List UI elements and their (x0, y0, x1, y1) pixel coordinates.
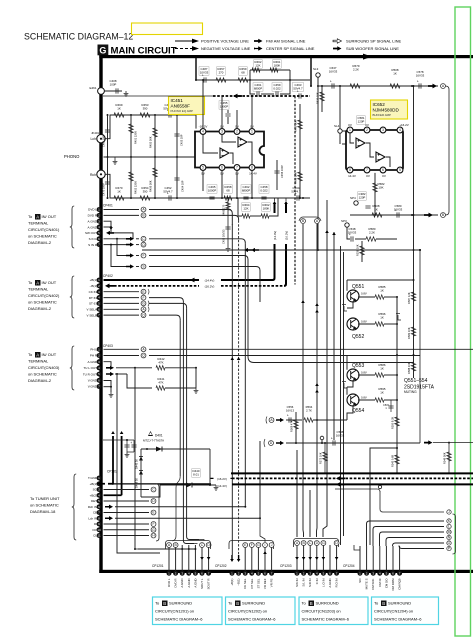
svg-text:+B(2): +B(2) (90, 493, 97, 497)
vertical bus left of muting 343 (343, 252, 345, 536)
svg-text:B: B (236, 601, 239, 606)
vertical bus from node F (247, 261, 249, 356)
svg-text:68: 68 (241, 70, 245, 74)
svg-text:TERMINAL: TERMINAL (28, 287, 49, 292)
svg-text:R545 0.68: R545 0.68 (391, 454, 395, 467)
ground R466 chain (226, 246, 231, 251)
svg-text:A: A (36, 281, 39, 286)
svg-text:R546 56K: R546 56K (443, 452, 447, 464)
CP1204 stub wires (359, 546, 361, 571)
wire CP1204 fan O (393, 543, 445, 546)
IC652 internal wires (350, 133, 354, 143)
diode D401 label (148, 431, 153, 436)
wire Q551 collector row (358, 296, 375, 298)
node B CP401 (141, 213, 146, 218)
svg-text:F: F (251, 543, 253, 547)
svg-text:6800P: 6800P (242, 188, 250, 192)
capacitor C382 (358, 192, 366, 200)
D401 frame bottom rail (141, 485, 186, 497)
CP1202 pin 3 CK SEL (243, 571, 248, 576)
wire buffer out row to B (350, 214, 438, 216)
wire muting to left drop (370, 448, 397, 545)
IC652 pin bottom 8 (347, 167, 353, 173)
CP1201 pin 7 SOUT R (206, 571, 211, 576)
node D CP1203 (314, 541, 319, 546)
svg-text:CP1201: CP1201 (152, 564, 164, 568)
svg-text:C469 180P: C469 180P (102, 134, 106, 147)
border drop wire at 311 (310, 58, 312, 86)
svg-text:CP402: CP402 (103, 274, 113, 278)
junction dots center buses (231, 472, 233, 474)
border drop wire at 196 (195, 58, 197, 80)
wire branch to S (111, 245, 126, 267)
wire Q551 rails (346, 280, 348, 291)
svg-text:3: 3 (382, 128, 384, 132)
svg-text:16V13: 16V13 (286, 408, 295, 412)
IC652 pin bottom 5 (397, 167, 403, 173)
IC451 pin 7 (234, 165, 240, 171)
vertical bus C down (149, 239, 245, 244)
CP1204 pin1 hook (354, 545, 360, 550)
pin circle C3 lower (378, 485, 381, 488)
IC451 pin 3 (219, 129, 225, 135)
svg-text:SCHEMATIC DIAGRAM–6: SCHEMATIC DIAGRAM–6 (374, 617, 422, 622)
long signal wire row 250 (142, 249, 420, 251)
svg-text:100P: 100P (110, 82, 117, 86)
svg-text:A.GND: A.GND (328, 579, 332, 588)
svg-text:CM RQ9: CM RQ9 (398, 578, 402, 590)
svg-text:T.GND: T.GND (88, 476, 98, 480)
svg-text:TU L OUT: TU L OUT (83, 366, 97, 370)
wire Lch jack riser (105, 115, 196, 139)
wire SP3 row (347, 227, 350, 239)
ac inlet E461 (98, 88, 105, 95)
diode D401 (156, 447, 162, 452)
capacitor C455 (219, 101, 229, 109)
svg-text:R588 10K: R588 10K (407, 362, 411, 374)
brace CP401 (70, 206, 74, 248)
node G CP101 (151, 527, 156, 532)
svg-text:R483 56K: R483 56K (294, 120, 298, 132)
svg-text:CP403: CP403 (103, 344, 113, 348)
node J CP1202 (269, 543, 274, 548)
CP1201 ground bar (138, 548, 195, 550)
wire CP402 pin5 to node G (104, 302, 140, 304)
svg-text:2.2K: 2.2K (353, 67, 359, 71)
svg-text:CP1204: CP1204 (343, 564, 355, 568)
op-amp A IC652 (356, 138, 365, 148)
svg-text:B: B (163, 601, 166, 606)
svg-text:+: + (202, 74, 204, 78)
node A right (441, 84, 446, 89)
node I CP1202 (263, 543, 268, 548)
connector SP3 (345, 223, 349, 227)
svg-text:+: + (417, 80, 419, 84)
svg-text:J: J (448, 510, 450, 514)
svg-text:R587 12K: R587 12K (407, 292, 411, 304)
svg-text:390: 390 (143, 106, 148, 110)
svg-text:–B(1): –B(1) (237, 578, 241, 585)
IC451 pin 5 (200, 165, 206, 171)
connector SL4 (338, 129, 342, 133)
resistor R582 below IC652 (374, 173, 376, 215)
right side vertical resistor R488 (299, 160, 301, 198)
resistor R587 vertical (413, 280, 415, 355)
wire CP402 pin6 to node A (104, 308, 140, 310)
svg-text:+: + (395, 209, 397, 213)
svg-text:2: 2 (236, 130, 238, 134)
wire CP401 pin7 S IN R (104, 244, 127, 246)
node D CP1201 (206, 543, 211, 548)
svg-text:R573 10K: R573 10K (319, 452, 323, 464)
wire CP101 CE to E (104, 512, 150, 514)
capacitor C515 (390, 400, 392, 412)
brace CP403 (70, 346, 74, 390)
svg-text:1: 1 (349, 128, 351, 132)
node F CP1202 (249, 543, 254, 548)
wire CP101 Lch IN (105, 516, 113, 520)
svg-text:CIRCUIT(CN403): CIRCUIT(CN403) (28, 365, 60, 370)
CP1201 pin 3 A.GND (180, 571, 185, 576)
IC451 internal wires (222, 134, 236, 142)
cyan box CN1204 (372, 597, 439, 625)
svg-text:SURROUND SP SIGNAL LINE: SURROUND SP SIGNAL LINE (346, 39, 401, 44)
positive rail from CP402 pin1 (104, 279, 200, 281)
shunt resistor R455 (154, 114, 156, 116)
svg-text:Q552: Q552 (352, 334, 364, 340)
op-amp IC652 package (346, 130, 403, 170)
bias stub Q551 (344, 306, 347, 311)
svg-text:SCHEMATIC DIAGRAM–6: SCHEMATIC DIAGRAM–6 (155, 617, 203, 622)
svg-text:+: + (167, 192, 169, 196)
svg-text:S/R IN: S/R IN (308, 579, 312, 588)
CP1202 housing bracket (229, 541, 274, 550)
svg-text:(16.2V): (16.2V) (205, 284, 215, 288)
node N CP1204 (447, 535, 451, 539)
vertical bus left of muting 340 (340, 246, 342, 545)
svg-text:SL3: SL3 (313, 67, 319, 71)
svg-text:CIRCUIT(CN1203) on: CIRCUIT(CN1203) on (302, 609, 341, 614)
svg-text:ST 63: ST 63 (89, 302, 97, 306)
wire CP101 DI to F (104, 523, 150, 525)
svg-text:–B(1): –B(1) (90, 284, 97, 288)
svg-text:VR REF: VR REF (263, 578, 267, 589)
wire node S run 266 (149, 267, 260, 272)
svg-text:A: A (36, 353, 39, 358)
wire CP403 pin5 TU R OUT (106, 372, 114, 376)
svg-text:4: 4 (399, 128, 401, 132)
svg-text:IC451: IC451 (171, 98, 184, 103)
resistor R461 (273, 60, 281, 68)
wire Q553 Q554 left rails (346, 355, 348, 370)
node D2 CP1203 (334, 541, 339, 546)
svg-text:CIRCUIT(CN1202) on: CIRCUIT(CN1202) on (228, 609, 267, 614)
svg-text:R451 220K: R451 220K (134, 131, 138, 144)
node H CP101 (151, 533, 156, 538)
svg-text:F: F (142, 254, 144, 258)
capacitor C581 (357, 116, 365, 124)
svg-text:CM DO: CM DO (384, 578, 388, 588)
resistor R458 (224, 185, 232, 193)
svg-text:DIAGRAM–2: DIAGRAM–2 (28, 240, 52, 245)
svg-text:1: 1 (251, 130, 253, 134)
svg-text:C470 180P: C470 180P (102, 183, 106, 196)
node B right (441, 213, 446, 218)
negative supply dashed bus upper (103, 95, 213, 97)
svg-text:5: 5 (202, 166, 204, 170)
node A CP402 (141, 307, 146, 312)
node C CP1201 (200, 543, 205, 548)
svg-text:120P: 120P (359, 195, 366, 199)
wire IC451 pin risers (202, 80, 204, 129)
CP1204 pin 7 CM RQ9 (397, 571, 402, 576)
node E CP1202 (243, 543, 248, 548)
IC652 pin bottom 6 (380, 167, 386, 173)
svg-text:5: 5 (399, 168, 401, 172)
brace CP402 (70, 276, 74, 318)
svg-text:Q551: Q551 (352, 284, 364, 290)
svg-text:1K: 1K (117, 106, 121, 110)
capacitor C461 (253, 83, 263, 91)
diode D440 (186, 483, 192, 488)
thick wire CP101 +B1 up (97, 482, 106, 486)
vertical link A B rows (413, 86, 415, 282)
svg-text:1K: 1K (393, 71, 397, 75)
resistor R568 vertical (295, 412, 297, 443)
svg-text:ST SEL: ST SEL (256, 578, 260, 588)
svg-text:6: 6 (221, 166, 223, 170)
CP1202 pin 1 +B(1) (230, 571, 235, 576)
shunt resistor R452 (130, 197, 132, 199)
supply rail drop at 420 (419, 250, 421, 442)
svg-text:To TUNER UNIT: To TUNER UNIT (30, 496, 60, 501)
wire CP401 pin1 to node A (104, 209, 140, 211)
svg-text:VR PS: VR PS (270, 578, 274, 587)
svg-text:DVD R: DVD R (88, 214, 98, 218)
node A row 420 bracket (266, 417, 267, 424)
svg-text:0.8V: 0.8V (361, 371, 367, 375)
svg-text:Q: Q (142, 354, 145, 358)
svg-text:SUB WOOFER SIGNAL LINE: SUB WOOFER SIGNAL LINE (346, 46, 399, 51)
svg-text:Q: Q (142, 313, 145, 317)
svg-text:47K: 47K (158, 360, 163, 364)
node G CP402 (141, 301, 146, 306)
node S CP401 (141, 264, 146, 269)
capacitor C445 (133, 440, 135, 452)
node G CP1202 (256, 543, 261, 548)
svg-text:F: F (142, 296, 144, 300)
jack Rch (97, 170, 105, 178)
resistor R462 (254, 60, 262, 68)
svg-text:Q553: Q553 (352, 363, 364, 369)
svg-text:180K: 180K (263, 206, 270, 210)
negative bus arrowhead (233, 94, 242, 99)
wire D row 443 (264, 439, 265, 447)
svg-text:(14.4V): (14.4V) (217, 484, 227, 488)
node D center (269, 441, 274, 446)
svg-text:CENTER SP SIGNAL LINE: CENTER SP SIGNAL LINE (266, 46, 315, 51)
op-amp B IC451 (220, 148, 229, 158)
CP1202 stub wires (244, 545, 246, 571)
node arrow to B (411, 214, 413, 216)
resistor R545 vertical (395, 455, 399, 464)
CP1203 stub wires (296, 545, 298, 571)
feedback network wire above IC451 (196, 79, 310, 81)
node C CP101 (151, 487, 156, 492)
CP402 node F bus down (149, 298, 183, 303)
bottom-left vertical from TU L (134, 368, 136, 549)
node A CP1203 (295, 541, 300, 546)
svg-text:2: 2 (366, 128, 368, 132)
right side vertical resistor R483 (299, 104, 301, 160)
svg-text:SURROUND: SURROUND (169, 601, 192, 606)
svg-text:B: B (382, 601, 385, 606)
wire cap row 440 (103, 439, 134, 441)
CP1202 pin 6 VR REF (263, 571, 268, 576)
svg-text:CK SEL: CK SEL (243, 578, 247, 589)
svg-text:6800P: 6800P (254, 86, 262, 90)
phono ground bus (104, 156, 256, 158)
svg-text:0V: 0V (365, 123, 369, 127)
CP1203 pin 2 S/L IN (301, 571, 306, 576)
IC451 highlight label (169, 97, 205, 115)
shunt capacitor C453 (176, 114, 178, 116)
wire CP101 CL to H (104, 535, 150, 537)
wire CP403 V.GND pins (104, 386, 112, 388)
wire CP402 pin3 to node E (104, 291, 140, 293)
wire CP402 pin7 to node Q (104, 314, 140, 316)
svg-text:V SELA: V SELA (86, 307, 97, 311)
wire CP1204 fan P (399, 546, 444, 549)
legend FM AM signal arrow (254, 39, 263, 43)
svg-text:8: 8 (251, 166, 253, 170)
cyan box CN1201 (153, 597, 223, 625)
svg-text:on SCHEMATIC: on SCHEMATIC (28, 300, 57, 305)
node C CP1203 (308, 541, 313, 546)
svg-text:3: 3 (221, 130, 223, 134)
svg-text:DET: DET (91, 499, 97, 503)
capacitor C459 (272, 83, 282, 91)
svg-text:MTZJ-T-7TA5TA: MTZJ-T-7TA5TA (143, 439, 164, 443)
svg-text:PHONO: PHONO (64, 154, 80, 159)
svg-text:SP3: SP3 (341, 219, 347, 223)
ground R441 (194, 388, 199, 393)
svg-text:G: G (142, 302, 145, 306)
wire SL4 drop from row (339, 86, 341, 129)
negative rail from CP402 pin2 (105, 284, 114, 289)
svg-text:1K: 1K (380, 390, 384, 394)
capacitor C457 vertical (227, 218, 229, 246)
resistor R588 vertical (413, 355, 415, 378)
svg-text:0.022: 0.022 (273, 86, 281, 90)
svg-text:14.4V: 14.4V (249, 172, 257, 176)
svg-text:SURROUND: SURROUND (242, 601, 265, 606)
capacitor C487 (199, 67, 209, 75)
svg-text:NJM4580DD: NJM4580DD (373, 108, 400, 113)
node D CP101 (151, 499, 156, 504)
node M CP1204 (447, 530, 451, 534)
muting block top rail (347, 279, 414, 281)
svg-text:16V33: 16V33 (336, 433, 345, 437)
CP1203 housing bracket (294, 539, 339, 548)
svg-text:270: 270 (219, 70, 224, 74)
negative bus vertical dashed drop (294, 96, 296, 285)
svg-text:PH L: PH L (90, 348, 97, 352)
svg-text:DVD L: DVD L (167, 578, 171, 587)
svg-text:0.022: 0.022 (260, 188, 268, 192)
IC451 pin 8 (249, 165, 255, 171)
svg-text:SOUT R: SOUT R (207, 579, 211, 590)
brace CP101 (72, 474, 76, 540)
svg-text:0.8V: 0.8V (361, 396, 367, 400)
capacitor C458 (259, 185, 269, 193)
node Q CP401 (141, 242, 146, 247)
svg-text:on SCHEMATIC: on SCHEMATIC (28, 234, 57, 239)
wire CP101 Rch IN (105, 505, 113, 509)
svg-text:SP4: SP4 (350, 196, 356, 200)
svg-text:V.GND: V.GND (88, 385, 98, 389)
bias stub Q554 (344, 383, 347, 388)
center vertical 303 (302, 224, 305, 537)
svg-text:11: 11 (97, 534, 100, 538)
center vertical 317 (316, 224, 319, 537)
wire CP403 pin1 to node A (104, 348, 140, 350)
wire to CP1201 ground bar (135, 548, 138, 550)
svg-text:180K: 180K (274, 63, 281, 67)
IC652 pin top 2 (364, 127, 370, 133)
capacitor C444 (126, 440, 128, 452)
svg-text:FM/ AM SIGNAL LINE: FM/ AM SIGNAL LINE (266, 39, 306, 44)
node A CP403 (141, 347, 146, 352)
svg-text:0.8V: 0.8V (361, 292, 367, 296)
resistor R583 vertical (411, 327, 415, 336)
IC652 highlight label (371, 100, 408, 119)
CP1201 stub wires (168, 545, 170, 571)
svg-text:Rch: Rch (90, 173, 96, 177)
center vertical 310 lower (309, 490, 311, 537)
vertical bus A down (149, 210, 232, 215)
cyan box CN1203 (299, 597, 368, 625)
capacitor C465 (207, 185, 217, 193)
node B CP1201 (173, 543, 178, 548)
svg-text:S IN L: S IN L (89, 237, 98, 241)
CP1202 supply arrows (230, 559, 234, 562)
vertical bus B down dashed (149, 215, 239, 220)
CP1204 pin 1 SO (358, 571, 363, 576)
svg-text:1K: 1K (380, 315, 384, 319)
node K CP1204 (447, 519, 451, 523)
thick wire CP101 +B2 up (104, 494, 122, 496)
horizontal PH R line 355.5 (149, 355, 420, 357)
svg-text:G: G (322, 541, 325, 545)
ground at C408 (124, 91, 129, 96)
svg-text:12K: 12K (243, 206, 248, 210)
bus corner from rail 420 (433, 442, 473, 444)
svg-text:S/L IN: S/L IN (302, 579, 306, 587)
node A CP401 (141, 207, 146, 212)
svg-text:16V33: 16V33 (329, 69, 338, 73)
svg-text:8.01: 8.01 (193, 472, 199, 476)
svg-text:SCHEMATIC DIAGRAM–6: SCHEMATIC DIAGRAM–6 (228, 617, 276, 622)
diode D440 label (192, 469, 200, 477)
muting mid vertical bus (396, 297, 398, 355)
svg-text:DVD L: DVD L (88, 208, 97, 212)
wire trio into CP1201 C D (183, 538, 194, 544)
wire CP401 ground pins 3 4 (104, 221, 112, 232)
node L CP1204 (447, 524, 451, 528)
svg-text:CE: CE (93, 511, 97, 515)
connector SL3 (316, 73, 320, 77)
